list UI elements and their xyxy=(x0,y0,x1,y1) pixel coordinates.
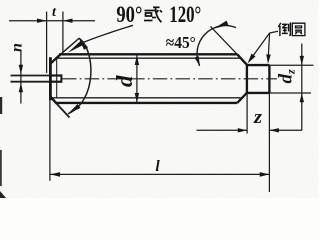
extension line dz bottom xyxy=(269,92,311,94)
dog point bottom edge xyxy=(247,92,270,94)
leader line from 90/120 label xyxy=(81,25,134,43)
chamfer extension line upper right xyxy=(211,26,238,54)
bottom-left chamfer bevel xyxy=(50,96,56,103)
slot upper wall xyxy=(50,74,61,76)
extension line z left xyxy=(246,94,248,134)
arrowhead top of angle arc xyxy=(79,38,88,50)
wire bottom outline of screw body xyxy=(56,102,237,104)
arrowhead n bottom xyxy=(19,83,23,92)
thread runout vertical xyxy=(56,58,58,97)
arrowhead dz bottom xyxy=(300,93,304,102)
character huo (or) xyxy=(144,7,162,22)
character dao (inverted/rounded) xyxy=(278,23,290,37)
left end face of screw xyxy=(49,57,52,100)
extension line t left xyxy=(46,12,48,74)
top-right chamfer to dog point xyxy=(237,54,247,65)
scan corner artifact xyxy=(0,191,6,198)
shoulder at dog point root xyxy=(246,65,248,93)
extension line dz top xyxy=(269,64,313,66)
scan edge artifact 2 xyxy=(0,150,2,186)
arrowhead z right xyxy=(270,128,279,132)
arrowhead approx45 on arc xyxy=(214,21,229,29)
slot extension line lower xyxy=(11,81,51,83)
arrowhead d top xyxy=(135,55,139,65)
arrowhead n top xyxy=(19,65,23,74)
dimension line dz xyxy=(301,44,303,131)
scan edge artifact 1 xyxy=(0,97,2,114)
character yuan (circle) xyxy=(292,23,305,35)
bottom-right chamfer to dog point xyxy=(237,93,247,103)
arrowhead l left xyxy=(50,172,60,177)
dimension line z right tail xyxy=(270,129,303,131)
arrowhead bottom of angle arc xyxy=(68,104,80,114)
dimension line d xyxy=(136,55,138,102)
extension line t right xyxy=(62,12,64,53)
arrowhead of 90/120 leader xyxy=(68,40,84,52)
arrowhead approx45 lower end xyxy=(194,56,200,66)
dog point end face xyxy=(268,65,270,93)
top-left chamfer bevel xyxy=(50,54,60,63)
arrowhead t left xyxy=(37,19,47,23)
dimension line z left tail xyxy=(197,129,248,131)
thread minor diameter line bottom xyxy=(52,97,240,99)
extension line z right / l right (shared) xyxy=(268,93,270,192)
centerline axis xyxy=(62,78,277,80)
angle dimension arc 90/120 xyxy=(68,38,91,114)
dimension line t left tail xyxy=(9,20,95,22)
arrowhead d bottom xyxy=(135,93,139,103)
dog point top edge xyxy=(247,64,270,66)
thread minor diameter line top xyxy=(57,57,241,59)
slot extension line upper xyxy=(11,75,51,77)
wire top outline of screw body xyxy=(59,53,237,55)
leader stub to daoyuan label xyxy=(270,31,278,33)
dimension line l xyxy=(50,173,269,175)
slot bottom xyxy=(60,74,62,82)
arrowhead t right xyxy=(63,19,73,23)
arrowhead l right xyxy=(260,172,270,177)
arrowhead at end rounding xyxy=(266,54,271,63)
leader to dog point root rounding xyxy=(250,33,270,60)
arrowhead dz top xyxy=(300,56,304,65)
dimension line n xyxy=(20,52,22,104)
paper noise overlay xyxy=(0,0,1,1)
leader to dog point end rounding xyxy=(268,33,269,59)
angle arc approx45 xyxy=(197,26,236,66)
slot lower wall xyxy=(50,81,61,83)
chamfer bevel extension bottom-left xyxy=(57,104,70,118)
chamfer bevel extension top-left xyxy=(61,38,80,54)
arrowhead at root rounding xyxy=(248,54,256,64)
extension line l left xyxy=(49,100,51,181)
arrowhead z left xyxy=(238,128,247,132)
